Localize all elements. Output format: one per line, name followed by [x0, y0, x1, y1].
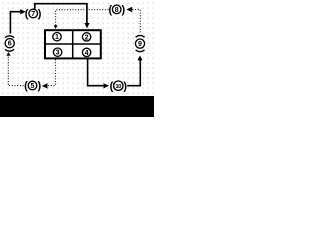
- svg-text:): ): [37, 80, 41, 92]
- wire 5 to 6 (dotted, left then up): [8, 55, 23, 85]
- wire 7 to table cell 2 (solid, up right down): [35, 4, 87, 24]
- svg-text:1: 1: [55, 34, 59, 41]
- svg-text:9: 9: [138, 41, 142, 48]
- arrowhead up into 9: [138, 55, 143, 60]
- svg-text:6: 6: [8, 41, 12, 48]
- node 9: circled 9: [135, 39, 144, 48]
- arrowhead left into (5): [42, 83, 48, 88]
- svg-text:3: 3: [56, 50, 60, 57]
- wire 10 to 9 (solid, right then up): [127, 60, 140, 86]
- cell 3: circled 3: [53, 48, 61, 57]
- node 6: circled 6: [5, 39, 14, 48]
- arrowhead right into (10): [104, 83, 110, 88]
- table outer border: [45, 30, 101, 58]
- svg-text:): ): [38, 8, 42, 20]
- wire 6 to 7 (solid, up then right): [10, 12, 20, 34]
- arrowhead into (7): [20, 9, 26, 14]
- svg-text:5: 5: [31, 83, 35, 90]
- svg-text:): ): [121, 4, 125, 16]
- svg-text:2: 2: [85, 34, 89, 41]
- svg-text:8: 8: [115, 7, 119, 14]
- table inner horizontal line: [45, 43, 101, 45]
- wire table cell 4 to 10 (solid, down then right): [88, 59, 104, 86]
- arrowhead left into (8): [126, 7, 132, 13]
- bottom black band: [0, 96, 154, 117]
- node (7): circled 7: [29, 9, 38, 18]
- svg-text:(: (: [25, 8, 29, 20]
- node 6: bottom paren (rotated): [5, 49, 14, 51]
- svg-text:(: (: [110, 80, 114, 92]
- background: [0, 0, 154, 117]
- node 9: top paren (rotated): [136, 35, 145, 37]
- node (10): circled 10: [114, 81, 123, 90]
- node (5): circled 5: [28, 81, 37, 90]
- cell 2: circled 2: [82, 33, 90, 42]
- table inner vertical line: [72, 30, 74, 59]
- svg-text:(: (: [24, 80, 28, 92]
- arrowhead up into 6: [6, 52, 10, 56]
- arrowhead down into table (small): [54, 25, 58, 29]
- cell 4: circled 4: [82, 48, 90, 57]
- cell 1: circled 1: [53, 33, 61, 42]
- wire 9 to 8 (dotted, up then left): [132, 10, 140, 33]
- arrowhead down into table: [84, 23, 89, 28]
- node 9: bottom paren (rotated): [136, 50, 145, 52]
- node (8): circled 8: [112, 5, 121, 14]
- svg-text:7: 7: [31, 11, 35, 18]
- wire table cell 3 to 5 (dotted, down then left): [47, 60, 55, 86]
- svg-text:): ): [123, 80, 127, 92]
- wire 8 to table cell 1 (dotted, left then down): [56, 10, 109, 26]
- svg-text:4: 4: [85, 50, 89, 57]
- node 6: top paren (rotated): [5, 36, 14, 38]
